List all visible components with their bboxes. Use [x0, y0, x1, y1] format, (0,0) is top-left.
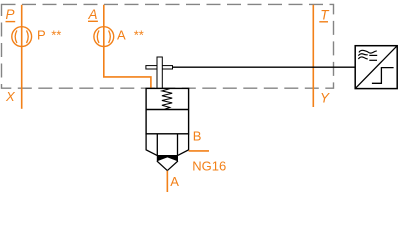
gauge/measuring point at A	[94, 27, 114, 47]
port B stub (orange)	[189, 150, 209, 152]
svg-text:NG16: NG16	[192, 159, 226, 174]
spring	[162, 89, 172, 110]
seat V right line	[167, 161, 178, 171]
gauge A right arc	[109, 30, 111, 43]
port line A (orange, runs to pilot valve)	[104, 5, 151, 89]
node A underline	[88, 20, 98, 22]
svg-text:P: P	[6, 7, 15, 22]
svg-text:X: X	[5, 89, 16, 104]
amplifier squiggle line 3	[369, 59, 377, 61]
svg-text:A: A	[117, 28, 126, 43]
port A stub (orange)	[166, 171, 168, 192]
svg-text:B: B	[193, 129, 202, 144]
node T underline	[319, 21, 328, 23]
valve lower body right side	[178, 134, 189, 156]
gauge/measuring point at P	[12, 27, 32, 47]
inner sleeve right line	[177, 134, 179, 156]
gauge P left arc	[15, 30, 17, 43]
dashed enclosure frame	[2, 4, 334, 88]
actuator crossbar (horizontal slim rect)	[146, 66, 173, 69]
amplifier U1 box	[355, 46, 397, 89]
valve V1 body	[146, 88, 189, 133]
amplifier diagonal	[355, 46, 397, 89]
gauge A left arc	[97, 30, 99, 43]
port line T (orange vertical right)	[312, 5, 314, 107]
svg-text:P: P	[37, 28, 46, 43]
valve divider line	[146, 109, 189, 111]
gauge P right arc	[27, 30, 29, 43]
amplifier step output symbol	[372, 68, 394, 84]
svg-text:**: **	[134, 28, 144, 43]
seat (filled cone)	[157, 155, 178, 161]
svg-text:**: **	[51, 28, 61, 43]
valve lower body left side	[146, 134, 157, 156]
svg-text:Y: Y	[320, 91, 330, 106]
amplifier input squiggle top tilde	[359, 50, 377, 53]
inner sleeve left line	[156, 134, 158, 156]
svg-text:A: A	[170, 174, 179, 189]
amplifier squiggle arc 2	[358, 54, 367, 56]
pilot signal wire to amplifier	[173, 66, 356, 68]
svg-text:A: A	[88, 7, 98, 22]
node P underline	[6, 21, 16, 23]
amplifier squiggle line 2	[369, 54, 377, 56]
amplifier squiggle arc 3	[358, 57, 367, 59]
port line P (orange vertical)	[21, 5, 23, 109]
svg-text:T: T	[320, 7, 330, 22]
seat V left line	[157, 161, 167, 171]
actuator stem (vertical slim rect)	[157, 57, 162, 88]
